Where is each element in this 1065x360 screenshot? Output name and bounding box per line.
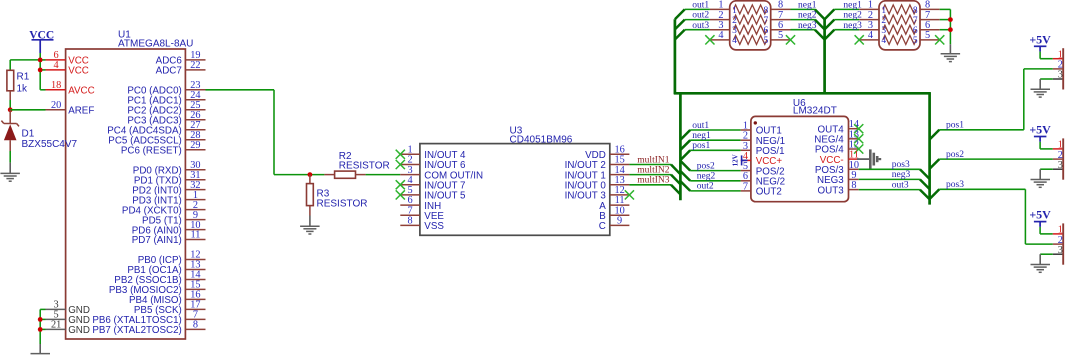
- svg-text:RESISTOR: RESISTOR: [317, 198, 368, 209]
- svg-text:11: 11: [190, 230, 200, 241]
- svg-text:1k: 1k: [17, 83, 29, 94]
- svg-text:out1: out1: [692, 121, 709, 131]
- svg-text:3: 3: [1058, 160, 1063, 171]
- svg-text:4: 4: [881, 36, 886, 46]
- svg-text:OUT2: OUT2: [756, 187, 782, 198]
- svg-text:5: 5: [778, 30, 783, 41]
- svg-text:PB7 (XTAL2TOSC2): PB7 (XTAL2TOSC2): [92, 325, 181, 336]
- svg-text:3: 3: [732, 26, 737, 36]
- svg-text:VSS: VSS: [424, 221, 444, 232]
- svg-text:neg2: neg2: [697, 172, 716, 182]
- svg-text:7: 7: [743, 181, 748, 192]
- svg-text:pos1: pos1: [946, 121, 964, 131]
- svg-text:multIN3: multIN3: [637, 176, 669, 186]
- svg-text:29: 29: [190, 140, 200, 151]
- svg-text:4: 4: [732, 36, 737, 46]
- svg-text:ATMEGA8L-8AU: ATMEGA8L-8AU: [118, 39, 193, 50]
- svg-text:8: 8: [764, 6, 769, 16]
- svg-text:+5V: +5V: [1029, 32, 1051, 46]
- svg-text:CD4051BM96: CD4051BM96: [510, 135, 573, 146]
- svg-text:AREF: AREF: [68, 106, 94, 117]
- svg-text:4: 4: [718, 30, 723, 41]
- svg-text:RESISTOR: RESISTOR: [339, 161, 390, 172]
- svg-text:neg3: neg3: [892, 170, 911, 180]
- svg-text:2: 2: [881, 16, 886, 26]
- svg-text:C: C: [599, 221, 606, 232]
- svg-text:21: 21: [51, 320, 61, 331]
- svg-text:out2: out2: [692, 11, 709, 21]
- svg-text:AVCC: AVCC: [68, 86, 95, 97]
- svg-text:R1: R1: [17, 72, 30, 83]
- svg-text:neg2: neg2: [798, 11, 817, 21]
- svg-text:+5V: +5V: [1029, 208, 1051, 222]
- svg-text:7: 7: [764, 16, 769, 26]
- svg-text:5: 5: [764, 36, 769, 46]
- svg-text:PD7 (AIN1): PD7 (AIN1): [132, 235, 182, 246]
- svg-text:neg1: neg1: [798, 1, 817, 11]
- svg-text:4: 4: [54, 60, 59, 71]
- svg-text:12V: 12V: [732, 154, 740, 166]
- svg-text:VCC: VCC: [68, 66, 89, 77]
- svg-text:3: 3: [1058, 245, 1063, 256]
- svg-text:+5V: +5V: [1029, 123, 1051, 137]
- svg-text:5: 5: [913, 36, 918, 46]
- svg-text:3: 3: [1058, 70, 1063, 81]
- svg-text:out2: out2: [697, 182, 714, 192]
- svg-text:GND: GND: [68, 325, 90, 336]
- svg-text:8: 8: [193, 320, 198, 331]
- svg-text:ADC7: ADC7: [156, 66, 182, 77]
- svg-text:out3: out3: [692, 21, 709, 31]
- svg-text:pos2: pos2: [946, 150, 964, 160]
- svg-text:out3: out3: [892, 180, 909, 190]
- svg-text:20: 20: [51, 100, 61, 111]
- svg-text:8: 8: [913, 6, 918, 16]
- svg-text:4: 4: [868, 30, 873, 41]
- svg-text:9: 9: [617, 216, 622, 227]
- svg-text:7: 7: [913, 16, 918, 26]
- svg-text:pos3: pos3: [946, 180, 964, 190]
- svg-text:1: 1: [732, 6, 737, 16]
- svg-text:neg3: neg3: [798, 21, 817, 31]
- svg-text:neg1: neg1: [843, 1, 862, 11]
- svg-text:pos1: pos1: [692, 141, 710, 151]
- svg-text:neg1: neg1: [692, 131, 711, 141]
- svg-text:pos3: pos3: [892, 160, 910, 170]
- svg-text:6: 6: [764, 26, 769, 36]
- svg-text:8: 8: [408, 216, 413, 227]
- svg-text:out1: out1: [692, 1, 709, 11]
- svg-text:3: 3: [881, 26, 886, 36]
- svg-text:pos2: pos2: [697, 161, 715, 171]
- svg-text:2: 2: [732, 16, 737, 26]
- svg-text:multIN2: multIN2: [637, 165, 669, 175]
- svg-text:BZX55C4V7: BZX55C4V7: [22, 139, 78, 150]
- svg-text:OUT3: OUT3: [818, 185, 845, 196]
- svg-text:PC6 (RESET): PC6 (RESET): [121, 145, 182, 156]
- svg-text:5: 5: [925, 30, 930, 41]
- svg-text:neg3: neg3: [843, 21, 862, 31]
- svg-text:neg2: neg2: [843, 11, 862, 21]
- svg-text:1: 1: [881, 6, 886, 16]
- svg-text:6: 6: [913, 26, 918, 36]
- svg-text:22: 22: [190, 60, 200, 71]
- svg-text:multIN1: multIN1: [637, 155, 669, 165]
- svg-text:18: 18: [51, 80, 61, 91]
- svg-text:8: 8: [851, 180, 856, 191]
- svg-text:LM324DT: LM324DT: [793, 106, 837, 117]
